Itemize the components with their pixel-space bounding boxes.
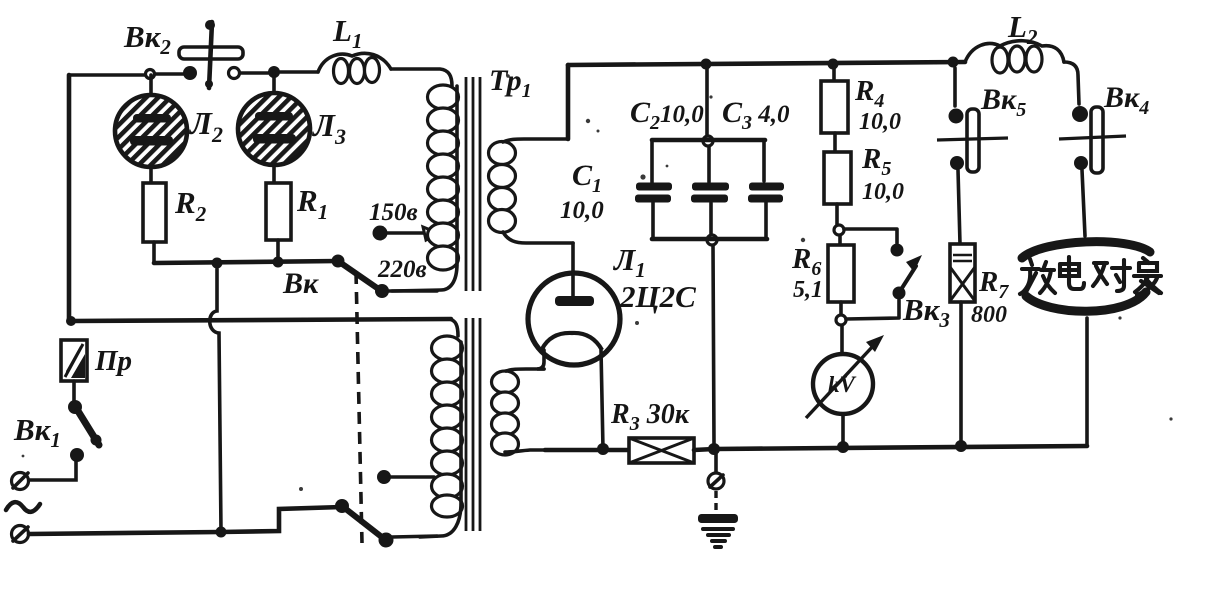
wire bottom bus left of R3 (545, 448, 629, 453)
wire Л3 leads (272, 72, 276, 183)
capacitor plates middle (692, 183, 729, 191)
svg-text:10,0: 10,0 (862, 179, 904, 205)
wire meter top lead (840, 326, 844, 354)
lamp Л3 (238, 93, 310, 165)
capacitor C2 plates left (636, 183, 672, 191)
switch Вк1 (68, 400, 102, 462)
wire tap contact to winding (390, 475, 434, 479)
meter kV (806, 335, 884, 418)
wire L2 to Вк4 (1064, 62, 1079, 104)
wire bottom bus (694, 446, 1087, 450)
switch Вк2 (179, 20, 243, 88)
node R6 bottom junction (836, 315, 846, 325)
svg-text:10,0: 10,0 (859, 109, 901, 135)
wire vertical with hop (210, 269, 221, 531)
node meter bus junction (837, 441, 849, 453)
node tube to bus junction (597, 443, 609, 455)
wire tube left lead (537, 350, 544, 369)
wire Вк3 lower branch (846, 300, 899, 319)
inductor L2 (965, 41, 1064, 73)
svg-text:220в: 220в (377, 256, 427, 283)
wire riser to top bus (566, 65, 571, 139)
wire top bus (568, 62, 965, 65)
label 放电对象 (1020, 257, 1161, 295)
wire Вк1 to terminal (29, 461, 76, 480)
svg-text:10,0: 10,0 (560, 197, 604, 224)
switch Вк3 wiper arrow (902, 255, 922, 288)
resistor R4 (821, 81, 848, 133)
wire R2 bottom lead (152, 242, 156, 263)
wire tube right lead (601, 350, 603, 449)
wire R4-R5 lead (833, 133, 837, 152)
resistor R7 (950, 244, 975, 302)
tube Л1 envelope (528, 273, 620, 365)
wire middle bus (71, 319, 451, 321)
node cap bank top junction (703, 136, 713, 146)
node R4 top bus junction (828, 59, 839, 70)
node junction Л2 top (146, 70, 155, 79)
tube filament arc (542, 333, 602, 350)
capacitor bank top bar (652, 138, 765, 143)
wire Вк5 to R7 (958, 170, 960, 244)
wire L1 to transformer (391, 69, 452, 86)
node Вк upper contact (332, 255, 345, 268)
node R7 bus junction (955, 440, 967, 452)
discharge object bottom electrode (1026, 292, 1146, 311)
wire HV vertical line (707, 65, 714, 444)
node top bus HV junction (701, 59, 712, 70)
wire bus below R1 R2 (154, 261, 338, 263)
terminal input lower (12, 526, 29, 543)
transformer core (466, 77, 480, 531)
resistor R5 (824, 152, 851, 204)
node junction Л3 top (268, 66, 280, 78)
wire cap left branch (652, 140, 653, 239)
wire to ground terminal (714, 452, 718, 472)
wire R7 bottom lead (959, 302, 963, 445)
node Вк3 lower contact (893, 287, 906, 300)
wire discharge object bottom lead (1085, 318, 1089, 446)
wire left vertical (67, 75, 72, 321)
wire fuse bottom lead (72, 381, 76, 401)
node switch contact left (183, 66, 197, 80)
switch tap selector lever (342, 506, 383, 538)
lamp Л2 (115, 95, 187, 167)
transformer Тр1 winding upper-left (392, 85, 459, 291)
svg-text:Вк: Вк (282, 267, 319, 300)
wire meter bottom lead (841, 414, 845, 446)
wire R6 bottom lead (839, 302, 843, 314)
inductor L1 (318, 53, 391, 83)
char 象 (1134, 258, 1161, 295)
wire tube top lead (571, 243, 575, 298)
wire R5 bottom lead (835, 204, 839, 224)
wire 150в tap (386, 231, 424, 235)
wire terminal to ground (714, 491, 717, 513)
wire Вк3 upper branch (844, 229, 897, 243)
char 放 (1020, 259, 1055, 294)
wire cap right branch (764, 140, 766, 239)
scan speckles (22, 74, 1173, 491)
wire Л2 leads (149, 75, 153, 183)
svg-text:kV: kV (828, 372, 857, 397)
wire R4 top lead (832, 64, 836, 81)
node winding tap contact (377, 470, 391, 484)
capacitor C3 plates right (749, 183, 784, 191)
ground symbol (698, 514, 738, 547)
wire R1 bottom lead (276, 240, 280, 262)
switch Вк lever (338, 261, 380, 290)
node Вк3 upper contact (891, 244, 904, 257)
terminal ground (708, 473, 724, 489)
transformer winding upper-right (489, 139, 574, 243)
svg-text:800: 800 (971, 302, 1007, 328)
node Вк5 top bus junction (948, 57, 959, 68)
fuse Пр (61, 340, 87, 381)
capacitor bank bottom bar (652, 237, 767, 242)
node Вк lower contact (375, 284, 389, 298)
wire dashed mechanical link (356, 272, 362, 543)
node cap bank bottom junction (707, 235, 717, 245)
svg-text:2Ц2С: 2Ц2С (619, 279, 696, 314)
terminal input upper (12, 473, 29, 490)
switch Вк5 (937, 68, 1008, 172)
svg-text:150в: 150в (369, 199, 418, 226)
node 150в terminal (373, 226, 388, 241)
transformer winding lower-right (492, 369, 546, 455)
node R3 bus junction (708, 443, 720, 455)
node bottom bus junction (216, 527, 227, 538)
tube anode bar (555, 296, 594, 306)
wire selector to winding (392, 536, 437, 537)
switch Вк4 (1059, 106, 1126, 173)
discharge object top electrode (1022, 242, 1150, 258)
transformer winding lower-left (420, 319, 463, 537)
char 电 (1060, 257, 1084, 289)
node R1 bus junction (273, 257, 284, 268)
node R5-R6 junction (834, 225, 844, 235)
svg-text:R3 30к: R3 30к (610, 399, 690, 435)
node selector upper contact (335, 499, 349, 513)
node switch contact right (229, 68, 240, 79)
wire top-left bus (69, 72, 318, 75)
node left bus junction (66, 316, 76, 326)
svg-text:Пр: Пр (94, 345, 132, 377)
svg-text:5,1: 5,1 (793, 277, 823, 303)
label ~ (6, 502, 40, 512)
resistor R2 (143, 183, 166, 242)
resistor R1 (266, 183, 291, 240)
wire Вк4 to discharge object (1082, 170, 1085, 236)
node R2 bus junction (212, 258, 223, 269)
wire bottom-left bus (29, 507, 342, 534)
resistor R6 (828, 245, 854, 302)
wire R6 top lead (838, 236, 842, 245)
char 对 (1093, 260, 1130, 291)
resistor R3 (629, 438, 694, 463)
wire 220в tap (389, 289, 437, 293)
node selector lower contact (379, 533, 394, 548)
